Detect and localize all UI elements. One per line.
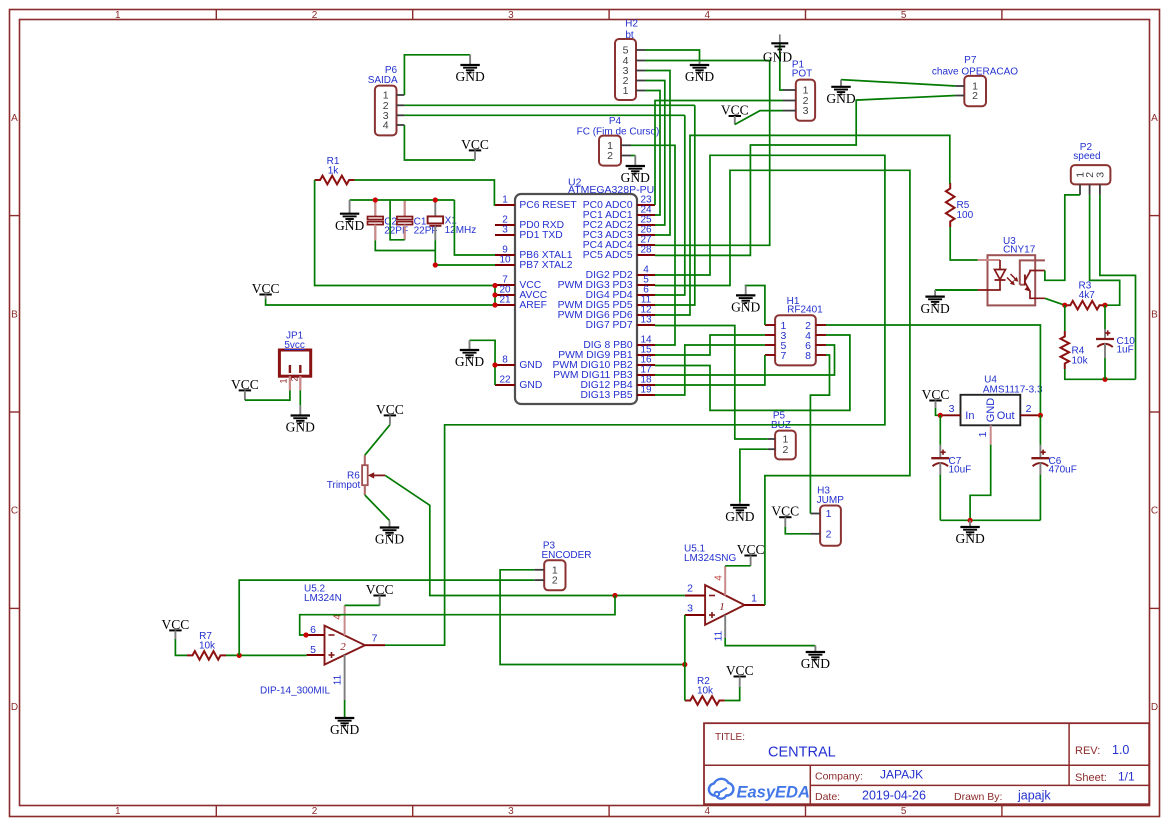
wire R3 right to P2 pin2 — [1090, 195, 1120, 305]
wire R7 right to U5.2 pin5 — [226, 654, 307, 656]
svg-text:GND: GND — [519, 380, 542, 391]
svg-text:2019-04-26: 2019-04-26 — [862, 789, 926, 803]
capacitor C6 470uF — [1031, 445, 1076, 476]
svg-text:2: 2 — [826, 528, 832, 540]
vcc flag U5.1 pin4 — [737, 542, 765, 566]
wire P7 pin1 to GND (diagonal) — [841, 80, 955, 86]
svg-text:1: 1 — [502, 195, 508, 206]
svg-text:Company:: Company: — [815, 771, 863, 783]
wire U5.1 pin3 to R2 left — [684, 615, 686, 701]
svg-text:1: 1 — [977, 431, 989, 437]
svg-text:GND: GND — [920, 301, 949, 316]
svg-text:TITLE:: TITLE: — [715, 732, 745, 743]
wire P6 pin3 to U2 pin6 — [655, 115, 685, 295]
svg-text:GND: GND — [801, 656, 830, 671]
svg-text:GND: GND — [286, 420, 315, 435]
svg-text:PD1 TXD: PD1 TXD — [519, 230, 562, 241]
svg-text:GND: GND — [763, 50, 792, 65]
svg-text:PB7 XTAL2: PB7 XTAL2 — [519, 260, 572, 271]
svg-text:5vcc: 5vcc — [284, 340, 305, 351]
wire P2 pin3 to bottom rail — [1100, 195, 1136, 379]
connector P5 BUZ — [768, 411, 796, 460]
svg-text:A: A — [11, 113, 18, 124]
svg-text:10k: 10k — [1072, 356, 1089, 367]
svg-text:5: 5 — [901, 10, 907, 21]
wire U2 pin18 to H1 pin7 — [655, 355, 765, 385]
wire R6 wiper to U5.1 pin2 — [385, 475, 685, 595]
vcc flag R7 left — [162, 617, 190, 639]
wire H2 pin2 to U2 pin25 — [646, 81, 665, 226]
wire VCC to R7 — [175, 639, 187, 655]
svg-text:3: 3 — [508, 10, 514, 21]
op-amp U5.2 LM324N — [260, 584, 385, 701]
svg-text:D: D — [11, 702, 18, 713]
connector H3 JUMP — [810, 486, 844, 546]
svg-text:LM324SNG: LM324SNG — [684, 553, 736, 564]
wire U2 pin15 to H1 pin3 — [655, 335, 765, 355]
svg-text:B: B — [1151, 309, 1158, 320]
svg-text:CENTRAL: CENTRAL — [768, 745, 836, 761]
resistor R4 10k — [1061, 331, 1089, 369]
wire P6 pin2 row — [404, 104, 694, 106]
wire junction U2 power pins — [494, 286, 496, 306]
svg-text:8: 8 — [502, 355, 508, 366]
wire H1 pin1 to GND — [745, 286, 765, 326]
svg-text:DIG7 PD7: DIG7 PD7 — [586, 320, 633, 331]
svg-text:GND: GND — [731, 300, 760, 315]
wire U4 ground rail — [940, 519, 1040, 521]
svg-text:GND: GND — [455, 69, 484, 84]
wire P1 pin2 to U2 pin23 — [655, 101, 783, 206]
svg-text:19: 19 — [640, 385, 652, 396]
wire VCC to U5.1 pin4 — [725, 565, 750, 567]
connector P1 POT — [783, 60, 815, 121]
connector H2 bt — [615, 19, 646, 101]
svg-text:JUMP: JUMP — [817, 495, 845, 506]
resistor R5 100 — [946, 183, 974, 227]
wire U2 pin8/22 to GND — [470, 340, 496, 365]
capacitor C7 10uF — [931, 445, 971, 476]
junction R3 right — [1102, 303, 1107, 308]
svg-text:1k: 1k — [328, 165, 340, 176]
wire VCC to U4 pin3 — [936, 408, 941, 415]
vcc flag at P1 pin3 — [721, 102, 749, 124]
svg-text:D: D — [1151, 702, 1158, 713]
svg-text:1: 1 — [623, 85, 629, 97]
svg-text:2: 2 — [312, 10, 318, 21]
svg-text:RF2401: RF2401 — [787, 304, 823, 315]
wire H2 pin4 to U2 pin27 — [646, 61, 770, 246]
junction U4 pin2 — [1038, 413, 1043, 418]
svg-text:3: 3 — [687, 603, 693, 615]
wire R1 right to U2 pin1 — [355, 180, 495, 205]
svg-text:1: 1 — [751, 593, 757, 605]
resistor R2 10k — [685, 676, 725, 705]
wire U5.1 pin11 to GND — [725, 638, 815, 646]
wire P7 pin2 to U2 pin28 — [655, 96, 955, 256]
wire VCC to U5.2 pin4 — [345, 604, 380, 606]
svg-text:GND: GND — [985, 398, 997, 423]
svg-text:EasyEDA: EasyEDA — [737, 784, 810, 802]
svg-text:ENCODER: ENCODER — [541, 550, 591, 561]
wire U3 emitter to R3 left (diagonal) — [1045, 298, 1065, 305]
svg-text:P7: P7 — [964, 55, 977, 66]
op-amp U5.1 LM324SNG — [684, 544, 765, 642]
svg-text:100: 100 — [957, 210, 974, 221]
svg-text:11: 11 — [333, 674, 344, 685]
svg-text:2: 2 — [972, 90, 978, 102]
junction X1 top — [433, 197, 438, 202]
connector H1 RF2401 — [765, 296, 826, 366]
svg-text:DIG13 PB5: DIG13 PB5 — [581, 390, 633, 401]
svg-text:3: 3 — [502, 225, 508, 236]
wire C10 top lead — [1104, 305, 1106, 329]
svg-text:GND: GND — [455, 354, 484, 369]
svg-text:GND: GND — [621, 170, 650, 185]
wire P6 pin1 to GND — [404, 55, 470, 95]
gnd flag H1 pin1 — [731, 286, 760, 315]
svg-text:5: 5 — [310, 644, 316, 656]
vcc flag H3 pin2 — [771, 504, 799, 527]
svg-text:4: 4 — [714, 575, 725, 581]
wire U5.2 pin7 output to U2 pin4 net — [385, 155, 885, 645]
svg-text:speed: speed — [1073, 151, 1100, 162]
wire P6 pin4 to VCC — [404, 125, 475, 160]
easyeda logo — [709, 779, 810, 802]
ic U2 ATMEGA328P-PU — [495, 177, 655, 405]
svg-text:3: 3 — [803, 105, 809, 117]
svg-text:1.0: 1.0 — [1112, 743, 1129, 757]
junction U5.2 pin6 — [303, 632, 308, 637]
svg-text:8: 8 — [805, 350, 811, 362]
svg-text:JAPAJK: JAPAJK — [880, 768, 923, 782]
wire junction down to U5.2 pin6 net — [300, 596, 615, 636]
svg-text:PC6 RESET: PC6 RESET — [519, 200, 577, 211]
gnd flag at P1 pin1 — [763, 34, 792, 64]
junction U4 pin3 — [938, 413, 943, 418]
svg-text:FC (Fim de Curso): FC (Fim de Curso) — [577, 127, 660, 138]
title block — [704, 723, 1149, 804]
gnd flag at P7 pin1 — [826, 80, 855, 106]
svg-text:B: B — [11, 309, 18, 320]
vcc flag U5.2 pin4 — [366, 582, 394, 606]
svg-text:5: 5 — [901, 806, 907, 817]
wire R1 left to U2 pin7 — [315, 180, 495, 286]
wire U3 cathode to GND — [935, 289, 977, 291]
gnd flag U2 pin8 — [455, 340, 484, 369]
wire H2 pin5 to GND — [646, 50, 700, 61]
gnd flag U3 cathode — [920, 290, 949, 316]
svg-text:H2: H2 — [625, 19, 638, 30]
svg-text:1: 1 — [279, 378, 289, 383]
svg-text:2: 2 — [782, 444, 788, 456]
wire U5.2 pin11 to GND — [344, 700, 346, 718]
junction X1 bottom — [433, 262, 438, 267]
svg-text:ATMEGA328P-PU: ATMEGA328P-PU — [568, 184, 654, 196]
svg-text:11: 11 — [714, 630, 725, 641]
svg-text:GND: GND — [955, 531, 984, 546]
svg-text:6: 6 — [310, 624, 316, 636]
wire C10 bottom lead — [1104, 358, 1106, 379]
svg-text:4: 4 — [705, 806, 711, 817]
svg-text:In: In — [965, 410, 974, 422]
wire C1 bottom loop — [390, 200, 405, 240]
svg-text:10uF: 10uF — [949, 465, 972, 476]
wire U3 collector to P2 pin1 — [1045, 195, 1080, 280]
svg-text:Out: Out — [997, 410, 1015, 422]
connector P6 SAIDA — [368, 65, 405, 135]
svg-text:chave OPERACAO: chave OPERACAO — [932, 67, 1018, 78]
wire U2 pin16 to H1 pin4 — [655, 335, 850, 410]
gnd flag at H2 pin5 — [685, 61, 714, 84]
junction bottom rail C10 — [1102, 377, 1107, 382]
svg-text:13: 13 — [640, 315, 652, 326]
wire crystal top rail — [350, 199, 455, 201]
wire JP1 pin2 to GND — [299, 390, 301, 405]
wire C7 bottom — [939, 475, 941, 521]
vcc flag R2 right — [726, 663, 754, 687]
gnd flag R6 bottom — [375, 521, 404, 547]
svg-text:7: 7 — [372, 633, 378, 645]
svg-text:GND: GND — [375, 532, 404, 547]
wire C7 top — [939, 415, 941, 445]
gnd flag U4 rail — [955, 520, 984, 546]
wire R4 bottom rail — [1065, 369, 1136, 379]
junction U2 pin20 — [492, 292, 497, 297]
optocoupler U3 CNY17 — [935, 236, 1045, 305]
svg-text:GND: GND — [330, 722, 359, 737]
svg-text:10k: 10k — [697, 685, 714, 696]
svg-text:4: 4 — [705, 10, 711, 21]
svg-text:22: 22 — [499, 375, 511, 386]
svg-text:A: A — [1151, 113, 1158, 124]
regulator U4 AMS1117-3.3 — [940, 374, 1043, 444]
svg-text:12MHz: 12MHz — [445, 225, 477, 236]
svg-text:POT: POT — [792, 69, 813, 80]
svg-text:1: 1 — [826, 508, 832, 520]
svg-text:GND: GND — [826, 91, 855, 106]
connector P4 FC (Fim de Curso) — [577, 116, 660, 166]
svg-text:Drawn By:: Drawn By: — [954, 791, 1002, 803]
wire R7 junction to P3 pin2 — [239, 580, 534, 655]
svg-text:10: 10 — [499, 255, 511, 266]
vcc flag U4 In — [922, 387, 950, 408]
gnd flag at P4 pin2 — [621, 156, 650, 186]
gnd flag P5 pin2 — [725, 502, 754, 524]
svg-text:2: 2 — [340, 641, 346, 653]
wire R6 bottom to GND (diagonal) — [365, 495, 390, 521]
wire C6 top — [1039, 415, 1041, 445]
svg-text:1/1: 1/1 — [1118, 770, 1135, 784]
svg-text:LM324N: LM324N — [304, 593, 342, 604]
wire U4 pin1 GND to rail — [970, 445, 991, 521]
vcc flag R6 top — [376, 402, 404, 425]
wire P6 pin2 to U2 pin11 — [655, 105, 695, 305]
wire VCC to R6 (diagonal) — [365, 425, 390, 455]
wire C2 bottom to X1 bottom — [375, 240, 435, 250]
svg-text:bt: bt — [625, 30, 634, 41]
svg-text:Date:: Date: — [815, 791, 840, 803]
vcc flag JP1 pin1 — [231, 377, 259, 400]
svg-text:1: 1 — [719, 601, 725, 613]
wire U2 pin12 to R5 net — [655, 135, 950, 315]
capacitor C1 22PF — [397, 200, 438, 240]
gnd flag JP1 pin2 — [286, 405, 315, 434]
wire U2 pin19 to H1 pin5 — [655, 345, 765, 395]
vcc flag at P6 pin4 — [461, 137, 489, 160]
svg-text:3: 3 — [1095, 172, 1107, 178]
svg-text:22PF: 22PF — [414, 226, 438, 237]
wire U2 pin13 to P5 pin1 — [655, 326, 768, 440]
svg-text:GND: GND — [685, 69, 714, 84]
wire R3 left down to R4 — [1064, 305, 1066, 331]
wire H1 pin2 to 3.3V rail — [826, 325, 1040, 415]
svg-text:7: 7 — [781, 350, 787, 362]
junction U2 pin21 — [492, 302, 497, 307]
junction U2 pin8 — [492, 362, 497, 367]
svg-text:C: C — [1151, 506, 1158, 517]
connector P7 chave OPERACAO — [932, 55, 1018, 106]
wire VCC to H3 pin2 — [785, 527, 810, 534]
wire P6 pin3 row — [404, 114, 684, 116]
vcc flag AREF — [252, 281, 280, 299]
resistor R7 10k — [187, 631, 226, 660]
svg-text:2: 2 — [607, 150, 613, 162]
svg-text:C: C — [11, 506, 18, 517]
junction R3 left — [1062, 303, 1067, 308]
svg-text:2: 2 — [1026, 403, 1032, 415]
jumper JP1 5vcc — [279, 331, 311, 391]
wire H2 pin1 to U2 pin24 — [646, 91, 661, 216]
wire R5 bottom to U3 anode — [950, 227, 977, 260]
gnd flag crystal rail — [335, 200, 364, 233]
wire R2 right to VCC — [725, 687, 740, 701]
trimpot R6 — [327, 455, 385, 495]
junction ground rail — [968, 518, 973, 523]
svg-text:2: 2 — [312, 806, 318, 817]
wire X1 bottom to U2 pin10 — [435, 264, 495, 266]
svg-text:PC5 ADC5: PC5 ADC5 — [583, 250, 633, 261]
svg-text:10k: 10k — [199, 640, 216, 651]
svg-text:japajk: japajk — [1017, 789, 1051, 803]
svg-text:4k7: 4k7 — [1079, 290, 1096, 301]
svg-text:3: 3 — [508, 806, 514, 817]
junction U2 pin7 — [492, 283, 497, 288]
wire U5.1 pin1 output to U2 pin5 net — [655, 170, 910, 605]
svg-text:AMS1117-3.3: AMS1117-3.3 — [983, 384, 1043, 395]
wire U2 pin17 to H1 pin6 — [655, 345, 835, 375]
junction R7 right — [237, 653, 242, 658]
wire C6 bottom — [1039, 475, 1041, 521]
svg-text:2: 2 — [687, 583, 693, 595]
svg-text:P4: P4 — [609, 116, 622, 127]
wire P4 pin1 to U2 pin14 — [631, 145, 675, 345]
svg-text:REV:: REV: — [1075, 745, 1100, 757]
svg-text:AREF: AREF — [519, 300, 546, 311]
svg-text:1uF: 1uF — [1117, 345, 1134, 356]
svg-text:470uF: 470uF — [1049, 465, 1077, 476]
junction C2 top — [373, 197, 378, 202]
gnd flag U5.1 pin11 — [801, 646, 830, 672]
wire P5 pin2 to GND — [740, 449, 768, 502]
svg-text:DIP-14_300MIL: DIP-14_300MIL — [260, 686, 330, 697]
svg-text:Trimpot: Trimpot — [327, 480, 361, 491]
resistor R3 4k7 — [1065, 281, 1105, 310]
svg-text:1: 1 — [115, 806, 121, 817]
svg-text:SAIDA: SAIDA — [368, 75, 398, 86]
svg-text:21: 21 — [499, 295, 511, 306]
wire H1 pin8 to H3 pin1 — [810, 355, 829, 514]
svg-text:2: 2 — [290, 376, 300, 381]
wire VCC to JP1 pin1 — [245, 390, 290, 400]
svg-text:Sheet:: Sheet: — [1075, 772, 1107, 784]
connector P3 ENCODER — [534, 541, 591, 591]
svg-text:2: 2 — [552, 575, 558, 587]
wire P3 pin1 to U5.1 pin3 net — [500, 570, 685, 665]
connector P2 speed — [1071, 142, 1111, 195]
wire P1 pin1 to GND — [780, 43, 783, 90]
junction U5.1 pin3 net — [682, 662, 687, 667]
svg-text:1: 1 — [115, 10, 121, 21]
wire H2 pin3 to U2 pin26 — [646, 71, 671, 236]
junction U5.1 pin2 net — [612, 593, 617, 598]
capacitor C2 22PF — [368, 200, 409, 240]
resistor R1 1k — [315, 156, 355, 184]
svg-text:4: 4 — [383, 120, 389, 132]
wire top rail to U2 pin9 — [454, 200, 495, 255]
svg-text:3: 3 — [949, 403, 955, 415]
svg-text:28: 28 — [640, 245, 652, 256]
capacitor C10 1uF — [1096, 329, 1135, 358]
gnd flag U5.2 pin11 — [330, 718, 359, 737]
wire VCC to P1 pin3 (diagonal) — [735, 111, 783, 125]
wire VCC to U2 pin21 AREF — [266, 299, 495, 305]
crystal X1 12MHz — [428, 200, 477, 265]
gnd flag at P6 pin1 — [455, 55, 484, 84]
svg-text:GND: GND — [725, 509, 754, 524]
svg-text:CNY17: CNY17 — [1003, 245, 1036, 256]
wire P4 pin2 to GND — [631, 155, 635, 157]
svg-text:GND: GND — [519, 360, 542, 371]
svg-text:GND: GND — [335, 218, 364, 233]
